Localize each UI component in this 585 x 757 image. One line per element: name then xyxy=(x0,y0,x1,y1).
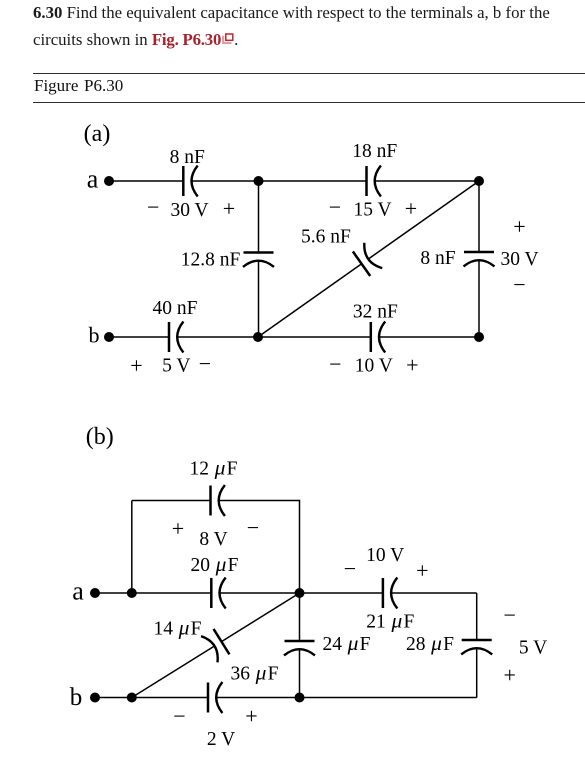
svg-text:−: − xyxy=(329,352,341,377)
wire 36uF to bottom node xyxy=(216,697,477,699)
wire 32nF to bottom right node xyxy=(379,336,479,338)
svg-text:b: b xyxy=(70,684,83,711)
wire right vertical lower (b) xyxy=(476,648,478,697)
value label 15 V with polarity xyxy=(329,195,417,221)
capacitor 21 uF xyxy=(383,578,397,609)
capacitor 24 uF xyxy=(284,641,315,655)
horizontal rule above figure caption xyxy=(33,73,585,74)
wire middle vertical upper (b) xyxy=(299,593,301,641)
svg-text:8 nF: 8 nF xyxy=(420,248,455,269)
wire middle vertical lower (b) xyxy=(299,649,301,697)
problem statement paragraph xyxy=(33,0,573,53)
junction node top middle xyxy=(254,176,264,186)
svg-text:10 V: 10 V xyxy=(355,356,393,377)
svg-text:24 μF: 24 μF xyxy=(322,631,370,655)
wire left riser xyxy=(131,501,133,594)
svg-text:−: − xyxy=(199,351,211,376)
value label 5 V with polarity xyxy=(130,351,211,378)
value label 5 V with polarity xyxy=(503,603,547,688)
svg-text:15 V: 15 V xyxy=(354,200,392,221)
svg-text:+: + xyxy=(513,214,525,239)
capacitor 12.8 nF xyxy=(243,253,274,267)
capacitor 28 uF xyxy=(461,640,492,654)
wire middle vertical upper xyxy=(258,181,260,253)
wire middle vertical lower xyxy=(258,261,260,337)
wire right vertical lower xyxy=(478,260,480,337)
value label 10 V with polarity xyxy=(344,545,429,583)
wire right vertical upper (b) xyxy=(476,593,478,640)
svg-text:+: + xyxy=(405,196,417,221)
capacitor 8 nF (right) xyxy=(464,252,495,266)
svg-text:12 μF: 12 μF xyxy=(189,456,237,480)
svg-text:21 μF: 21 μF xyxy=(366,609,414,633)
capacitor 36 uF xyxy=(208,682,222,713)
svg-text:−: − xyxy=(173,704,185,729)
svg-text:32 nF: 32 nF xyxy=(353,302,398,323)
value label 30 V right with polarity xyxy=(500,214,538,297)
svg-text:14 μF: 14 μF xyxy=(153,616,201,640)
svg-text:5.6 nF: 5.6 nF xyxy=(301,227,351,248)
wire top loop left xyxy=(132,500,211,502)
svg-text:−: − xyxy=(247,515,259,540)
wire 8nF to 18nF xyxy=(192,180,367,182)
diagonal wire lower-left segment (a) xyxy=(258,264,362,337)
diagonal wire upper-right segment (a) xyxy=(368,181,479,259)
wire a to junction xyxy=(95,592,132,594)
wire top loop right xyxy=(219,501,300,594)
svg-text:+: + xyxy=(406,352,418,377)
wire 40nF to 32nF xyxy=(177,336,371,338)
capacitor 40 nF xyxy=(169,322,183,353)
junction node bottom middle xyxy=(253,332,263,342)
svg-text:(b): (b) xyxy=(86,424,114,450)
svg-text:2 V: 2 V xyxy=(207,729,235,750)
svg-text:−: − xyxy=(503,603,515,628)
capacitor 5.6 nF (diagonal) xyxy=(353,243,383,277)
wire a to 8nF xyxy=(109,180,183,182)
wire 20uF to main node xyxy=(220,592,383,594)
node top right xyxy=(474,176,484,186)
svg-text:−: − xyxy=(147,195,159,220)
value label 30 V with polarity xyxy=(147,195,235,221)
svg-text:30 V: 30 V xyxy=(171,200,209,221)
wire 21uF to right corner xyxy=(391,592,477,594)
wire b junction to 36uF xyxy=(132,697,208,699)
capacitor 18 nF xyxy=(367,166,381,197)
value label 8 V with polarity xyxy=(172,515,259,550)
svg-text:36 μF: 36 μF xyxy=(230,661,278,685)
svg-text:a: a xyxy=(87,165,99,194)
main node (circuit b) xyxy=(295,588,305,598)
svg-text:−: − xyxy=(513,272,525,297)
capacitor 8 nF (top left) xyxy=(183,166,197,197)
svg-text:30 V: 30 V xyxy=(500,249,538,270)
svg-text:8 nF: 8 nF xyxy=(170,147,205,168)
value label 2 V with polarity xyxy=(173,703,257,750)
svg-text:−: − xyxy=(344,556,356,581)
svg-text:8 V: 8 V xyxy=(199,529,227,550)
junction node a riser xyxy=(127,588,137,598)
svg-text:12.8 nF: 12.8 nF xyxy=(181,250,241,271)
capacitor 12 uF xyxy=(211,485,225,516)
svg-text:+: + xyxy=(223,196,235,221)
svg-text:+: + xyxy=(416,558,428,583)
svg-text:b: b xyxy=(89,323,100,348)
junction node b diagonal xyxy=(127,693,137,703)
svg-text:+: + xyxy=(503,662,515,687)
capacitor 14 uF (diagonal) xyxy=(201,628,230,662)
value label 10 V with polarity xyxy=(329,352,418,378)
svg-text:20 μF: 20 μF xyxy=(190,552,238,576)
diagonal wire lower-left segment (b) xyxy=(132,646,215,698)
node bottom middle (b) xyxy=(295,693,305,703)
svg-text:+: + xyxy=(130,353,142,378)
svg-text:5 V: 5 V xyxy=(162,356,190,377)
svg-text:−: − xyxy=(329,195,341,220)
wire right vertical upper xyxy=(478,181,480,252)
diagonal wire upper-right segment (b) xyxy=(222,593,300,642)
svg-text:+: + xyxy=(245,703,257,728)
svg-text:a: a xyxy=(72,577,84,606)
capacitor 20 uF xyxy=(211,578,225,609)
wire b to 40nF xyxy=(109,336,169,338)
wire b to junction xyxy=(95,697,132,699)
capacitor 32 nF xyxy=(371,322,385,353)
svg-text:28 μF: 28 μF xyxy=(406,631,454,655)
wire 18nF to top right node xyxy=(375,180,479,182)
svg-text:5 V: 5 V xyxy=(519,637,547,658)
svg-text:18 nF: 18 nF xyxy=(352,141,397,162)
node bottom right xyxy=(474,332,484,342)
svg-text:40 nF: 40 nF xyxy=(153,298,198,319)
svg-text:(a): (a) xyxy=(84,121,111,147)
figure caption xyxy=(34,76,123,96)
wire junction to 20uF xyxy=(132,592,212,594)
svg-text:+: + xyxy=(172,516,184,541)
svg-text:10 V: 10 V xyxy=(366,545,404,566)
horizontal rule below figure caption xyxy=(33,102,585,103)
